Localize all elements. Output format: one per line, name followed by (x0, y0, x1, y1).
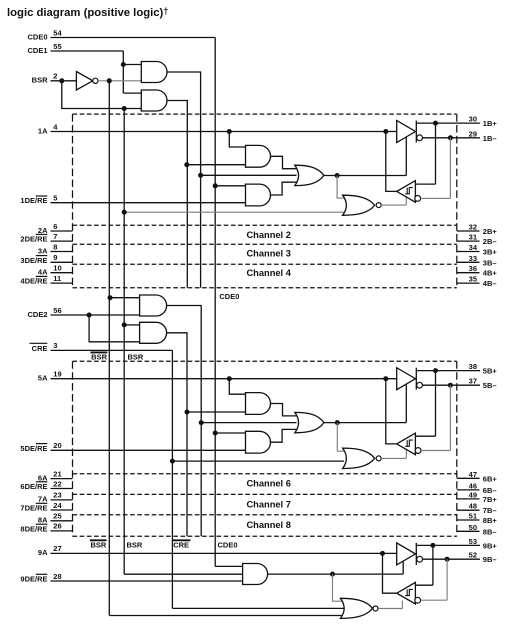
svg-text:5DE/RE: 5DE/RE (20, 444, 47, 453)
svg-text:BSR: BSR (90, 540, 106, 549)
svg-text:CDE0: CDE0 (219, 292, 239, 301)
svg-text:36: 36 (469, 264, 477, 273)
svg-text:BSR: BSR (32, 76, 48, 85)
svg-text:1A: 1A (38, 126, 48, 135)
svg-text:2A: 2A (38, 226, 48, 235)
svg-text:Channel 8: Channel 8 (246, 520, 290, 530)
svg-text:5B+: 5B+ (483, 367, 498, 376)
svg-text:1DE/RE: 1DE/RE (20, 196, 47, 205)
svg-text:50: 50 (469, 523, 477, 532)
svg-text:9: 9 (53, 253, 57, 262)
svg-text:9A: 9A (38, 548, 48, 557)
svg-text:20: 20 (53, 441, 61, 450)
svg-text:CRE: CRE (173, 540, 189, 549)
svg-text:51: 51 (469, 512, 477, 521)
svg-text:4A: 4A (38, 268, 48, 277)
svg-text:27: 27 (53, 544, 61, 553)
svg-text:4B–: 4B– (483, 279, 497, 288)
svg-text:7: 7 (53, 232, 57, 241)
svg-text:55: 55 (53, 42, 61, 51)
svg-text:CDE0: CDE0 (218, 540, 238, 549)
svg-text:8A: 8A (38, 516, 48, 525)
svg-text:3B–: 3B– (483, 258, 497, 267)
svg-text:5: 5 (53, 194, 57, 203)
svg-text:CDE1: CDE1 (27, 46, 47, 55)
svg-text:5B–: 5B– (483, 381, 497, 390)
svg-text:Channel 4: Channel 4 (246, 268, 291, 278)
svg-text:8B+: 8B+ (483, 516, 498, 525)
svg-text:33: 33 (469, 254, 477, 263)
svg-text:54: 54 (53, 28, 62, 37)
svg-text:logic diagram (positive logic): logic diagram (positive logic)† (7, 6, 168, 19)
svg-text:BSR: BSR (91, 352, 107, 361)
svg-text:2: 2 (53, 72, 57, 81)
svg-text:24: 24 (53, 501, 62, 510)
svg-text:7A: 7A (38, 495, 48, 504)
svg-text:CDE0: CDE0 (27, 32, 47, 41)
svg-text:9B+: 9B+ (483, 541, 498, 550)
svg-text:29: 29 (469, 129, 477, 138)
svg-text:2DE/RE: 2DE/RE (20, 235, 47, 244)
svg-text:3: 3 (53, 341, 57, 350)
svg-text:4B+: 4B+ (483, 269, 498, 278)
svg-text:28: 28 (53, 572, 61, 581)
svg-text:7B+: 7B+ (483, 495, 498, 504)
svg-text:23: 23 (53, 491, 61, 500)
svg-text:6: 6 (53, 222, 57, 231)
svg-text:6B–: 6B– (483, 486, 497, 495)
svg-text:4DE/RE: 4DE/RE (20, 277, 47, 286)
svg-text:3A: 3A (38, 246, 48, 255)
svg-text:9DE/RE: 9DE/RE (20, 575, 47, 584)
svg-text:2B–: 2B– (483, 237, 497, 246)
svg-text:7DE/RE: 7DE/RE (20, 504, 47, 513)
svg-text:26: 26 (53, 522, 61, 531)
svg-text:34: 34 (469, 243, 478, 252)
svg-text:6DE/RE: 6DE/RE (20, 482, 47, 491)
svg-text:8B–: 8B– (483, 527, 497, 536)
svg-text:48: 48 (469, 502, 477, 511)
svg-text:38: 38 (469, 362, 477, 371)
svg-text:8: 8 (53, 242, 57, 251)
svg-text:Channel 2: Channel 2 (246, 230, 290, 240)
svg-text:5A: 5A (38, 374, 48, 383)
svg-text:30: 30 (469, 115, 477, 124)
svg-text:35: 35 (469, 275, 477, 284)
svg-text:46: 46 (469, 481, 477, 490)
svg-text:BSR: BSR (127, 540, 143, 549)
svg-text:52: 52 (469, 551, 477, 560)
svg-text:53: 53 (469, 537, 477, 546)
svg-text:CDE2: CDE2 (27, 310, 47, 319)
svg-text:25: 25 (53, 512, 61, 521)
svg-text:6B+: 6B+ (483, 474, 498, 483)
svg-text:8DE/RE: 8DE/RE (20, 524, 47, 533)
svg-text:49: 49 (469, 490, 477, 499)
svg-text:Channel 6: Channel 6 (246, 479, 290, 489)
svg-text:47: 47 (469, 470, 477, 479)
svg-text:BSR: BSR (128, 352, 144, 361)
svg-text:2B+: 2B+ (483, 227, 498, 236)
svg-text:21: 21 (53, 469, 61, 478)
svg-text:19: 19 (53, 370, 61, 379)
svg-text:56: 56 (53, 306, 61, 315)
svg-text:37: 37 (469, 377, 477, 386)
svg-text:31: 31 (469, 233, 477, 242)
svg-text:Channel 3: Channel 3 (246, 249, 290, 259)
svg-text:11: 11 (53, 274, 61, 283)
svg-text:22: 22 (53, 479, 61, 488)
svg-text:10: 10 (53, 264, 61, 273)
svg-text:7B–: 7B– (483, 506, 497, 515)
svg-text:3DE/RE: 3DE/RE (20, 256, 47, 265)
svg-text:Channel 7: Channel 7 (246, 499, 290, 509)
svg-text:32: 32 (469, 223, 477, 232)
svg-text:9B–: 9B– (483, 555, 497, 564)
svg-text:1B–: 1B– (483, 134, 497, 143)
svg-text:CRE: CRE (32, 344, 48, 353)
svg-text:1B+: 1B+ (483, 119, 498, 128)
svg-text:3B+: 3B+ (483, 248, 498, 257)
